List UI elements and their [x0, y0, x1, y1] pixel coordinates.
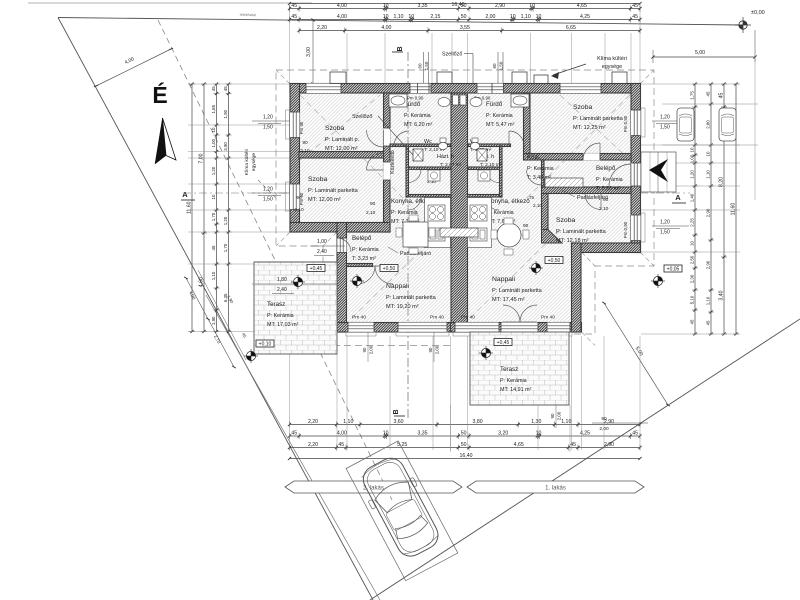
level +0.50 right unit: [545, 257, 563, 264]
dim total 16.40 top: [290, 3, 641, 5]
kitchen counter left: [425, 198, 451, 248]
svg-text:90: 90: [603, 197, 609, 203]
door belepo-left west: [337, 238, 347, 253]
svg-text:5,10: 5,10: [690, 295, 695, 304]
bathtub left: [389, 94, 407, 107]
door gap szoba1 left: [383, 128, 390, 146]
washing machine left: [428, 170, 440, 181]
svg-text:45: 45: [632, 3, 638, 9]
wall belepo bottom right-unit: [542, 187, 632, 194]
svg-text:1,40: 1,40: [690, 193, 695, 202]
right extension lines: [641, 83, 740, 85]
dining table right: [497, 223, 521, 247]
exterior wall north: [290, 84, 640, 94]
svg-text:Szellőző: Szellőző: [442, 52, 462, 58]
svg-text:A: A: [182, 190, 188, 199]
svg-text:45: 45: [338, 442, 344, 448]
svg-text:3,35: 3,35: [417, 3, 427, 9]
window sills west/east: [286, 110, 290, 139]
svg-text:2,90: 2,90: [495, 3, 505, 9]
wall wc bottom right-unit: [468, 167, 503, 170]
wall furdo bottom left-unit: [390, 144, 451, 147]
wall hazt bottom right-unit: [468, 195, 503, 198]
svg-text:1,10: 1,10: [343, 419, 353, 425]
svg-text:telekhatár: telekhatár: [240, 13, 257, 17]
svg-text:90: 90: [550, 413, 555, 418]
kitchen counter right: [468, 198, 492, 248]
svg-text:MT: 17,45 m²: MT: 17,45 m²: [492, 297, 525, 303]
stove left: [428, 205, 445, 221]
door wc left: [408, 170, 421, 183]
right vertical ext from 5.00: [754, 57, 756, 200]
window szoba1 north: [306, 84, 341, 94]
svg-text:1,20: 1,20: [263, 187, 273, 193]
svg-text:MT: 14,91 m²: MT: 14,91 m²: [500, 387, 532, 393]
left chain detailed 2: [228, 84, 230, 332]
wall wc right right-unit: [500, 146, 503, 197]
door szoba-tr right: [583, 143, 600, 160]
door gap szoba-tr right: [583, 153, 600, 160]
svg-text:10: 10: [690, 147, 695, 152]
wall kozl right right-unit: [542, 160, 545, 187]
terrace dim extension lines: [450, 405, 452, 452]
svg-text:3,90: 3,90: [223, 142, 228, 151]
svg-text:1,10: 1,10: [706, 296, 711, 305]
window nappali-left south 1: [348, 323, 374, 333]
dim 3.00 left of B: [312, 20, 314, 84]
site boundary top edge: [58, 18, 743, 26]
svg-text:MT: 5,47 m²: MT: 5,47 m²: [486, 122, 515, 128]
svg-text:2,15: 2,15: [430, 14, 440, 20]
svg-text:3,55: 3,55: [460, 25, 470, 31]
svg-text:1,10: 1,10: [211, 271, 216, 280]
svg-text:1,90: 1,90: [211, 316, 216, 325]
site boundary right edge: [370, 319, 800, 600]
svg-text:6,65: 6,65: [566, 25, 576, 31]
svg-text:1,85: 1,85: [211, 104, 216, 113]
svg-text:1,10: 1,10: [393, 14, 403, 20]
party wall vent shafts: [453, 95, 459, 105]
door nappali-right south: [501, 323, 538, 333]
dim row2 top: [290, 19, 641, 21]
svg-text:2,00: 2,00: [599, 426, 609, 432]
window szoba-tr east: [631, 110, 641, 136]
svg-text:90: 90: [302, 140, 308, 146]
svg-text:1,75: 1,75: [690, 91, 695, 100]
svg-text:1,20: 1,20: [660, 220, 670, 226]
svg-text:2,20: 2,20: [317, 25, 327, 31]
svg-text:1,50: 1,50: [660, 125, 670, 131]
svg-text:Belépő: Belépő: [352, 235, 372, 242]
svg-text:50: 50: [461, 442, 467, 448]
svg-text:1. lakás: 1. lakás: [545, 486, 566, 492]
exterior wall east lower: [572, 243, 582, 332]
svg-text:Klíma kültéri: Klíma kültéri: [597, 56, 627, 62]
door kozl right: [527, 170, 542, 185]
svg-text:10: 10: [690, 241, 695, 246]
left extension lines: [188, 83, 290, 85]
svg-text:Közl.: Közl.: [527, 155, 541, 161]
svg-text:2,50: 2,50: [690, 255, 695, 264]
wall wc left left-unit: [406, 146, 409, 197]
svg-text:Szoba: Szoba: [308, 176, 327, 183]
chimney stacks north wall: [330, 72, 346, 84]
svg-text:MT: 12,25 m²: MT: 12,25 m²: [573, 125, 606, 131]
svg-text:60: 60: [492, 63, 497, 69]
svg-text:45: 45: [690, 319, 695, 324]
door belepo-right east: [631, 163, 641, 186]
svg-text:45: 45: [211, 86, 216, 91]
svg-text:1,20: 1,20: [690, 170, 695, 179]
exterior wall southeast jog: [572, 243, 641, 253]
svg-text:10: 10: [408, 14, 414, 20]
svg-text:Wc: Wc: [424, 139, 432, 145]
svg-text:MT: 12,00 m²: MT: 12,00 m²: [325, 146, 358, 152]
svg-text:1,80: 1,80: [277, 277, 287, 283]
svg-text:90: 90: [296, 195, 302, 201]
svg-text:1,00: 1,00: [211, 138, 216, 147]
svg-text:2,00: 2,00: [557, 411, 562, 420]
svg-text:T: 3,23 m²: T: 3,23 m²: [352, 256, 376, 262]
svg-text:T: 5,56 m²: T: 5,56 m²: [596, 186, 620, 192]
door szoba1 left: [367, 130, 384, 147]
interior dashed roof lines: [300, 95, 420, 215]
svg-text:1,50: 1,50: [263, 197, 273, 203]
exterior wall south left: [337, 323, 461, 333]
svg-text:2,10: 2,10: [294, 207, 304, 213]
page top edge line: [28, 2, 312, 4]
exterior wall east upper: [631, 84, 641, 253]
window szoba-se east: [631, 215, 641, 241]
window furdo-right north: [477, 84, 498, 94]
window furdo-left north: [410, 84, 431, 94]
svg-text:Pm 0,90: Pm 0,90: [623, 221, 628, 238]
vent dim lines right: [497, 52, 499, 84]
level +0.45 right terrace: [494, 339, 512, 346]
wall belepo bottom left-unit: [347, 264, 373, 267]
parking space lines: [662, 103, 758, 105]
wall szoba right left-unit: [384, 93, 391, 232]
entrance arrow right: [649, 159, 668, 182]
building setback dashed line: [158, 20, 392, 500]
north arrow: [155, 118, 176, 164]
level +0.05 outside se: [664, 265, 682, 272]
exterior wall west upper: [290, 84, 300, 233]
entrance door right: [609, 164, 631, 186]
svg-text:2,20: 2,20: [308, 419, 318, 425]
front setback dim 4.00: [96, 49, 171, 86]
roof eaves dashed outline: [276, 70, 654, 334]
left chain 7.00/4.60: [203, 84, 205, 332]
exterior wall west lower: [337, 223, 347, 333]
toilet left: [440, 138, 446, 143]
svg-text:+0,45: +0,45: [497, 340, 510, 346]
svg-text:Nappali: Nappali: [492, 276, 516, 283]
svg-text:10: 10: [383, 3, 389, 9]
svg-text:2,10: 2,10: [366, 210, 376, 216]
svg-text:T: 2,10 m²: T: 2,10 m²: [480, 162, 502, 168]
svg-text:5,00: 5,00: [695, 50, 705, 56]
svg-text:4,00: 4,00: [337, 431, 347, 437]
svg-text:4,00: 4,00: [337, 3, 347, 9]
svg-text:1,90: 1,90: [223, 109, 228, 118]
svg-text:P: Kerámia: P: Kerámia: [352, 247, 379, 253]
double door belepo-left to nappali: [357, 266, 375, 284]
svg-text:MT: 12,00 m²: MT: 12,00 m²: [308, 197, 341, 203]
svg-text:Pm 0,90: Pm 0,90: [623, 115, 628, 132]
vent gap right north: [492, 84, 504, 94]
svg-text:90: 90: [428, 347, 433, 352]
svg-text:1,50: 1,50: [660, 230, 670, 236]
svg-text:1,20: 1,20: [223, 216, 228, 225]
wall szoba divider right: [524, 154, 632, 161]
svg-text:45: 45: [632, 431, 638, 437]
dim row1 bottom: [290, 424, 641, 426]
svg-text:+0,10: +0,10: [259, 342, 272, 348]
svg-text:Nappali: Nappali: [386, 283, 410, 290]
terrace door belepo-left: [337, 238, 351, 252]
door wc right: [486, 170, 499, 183]
svg-text:Fürdő: Fürdő: [486, 101, 503, 108]
svg-text:+0,50: +0,50: [383, 266, 396, 272]
svg-text:Belépő: Belépő: [596, 165, 616, 172]
wall szoba left right-unit: [524, 93, 531, 154]
level +0.50 left unit: [380, 265, 398, 272]
svg-text:MT: 17,03 m²: MT: 17,03 m²: [267, 322, 299, 328]
svg-text:7,00: 7,00: [199, 153, 205, 163]
svg-text:4,00: 4,00: [337, 14, 347, 20]
svg-text:3,80: 3,80: [473, 419, 483, 425]
svg-text:P: Kerámia: P: Kerámia: [404, 113, 431, 119]
parking bay outline: [346, 441, 458, 581]
svg-text:2,00: 2,00: [435, 345, 440, 354]
window szoba1 west: [290, 112, 300, 138]
vent gap left north: [418, 84, 430, 94]
section line B-B vertical: [407, 52, 409, 418]
bottom dim extension lines: [289, 336, 291, 450]
svg-text:2,00: 2,00: [485, 14, 495, 20]
svg-text:75: 75: [529, 195, 535, 200]
svg-text:2,30: 2,30: [690, 274, 695, 283]
dim row3 top: [299, 30, 640, 32]
parking car 1: [677, 108, 694, 141]
svg-text:P: Kerámia: P: Kerámia: [267, 313, 294, 319]
svg-text:±0,00: ±0,00: [751, 10, 765, 16]
svg-text:11,60: 11,60: [731, 203, 737, 216]
svg-text:1,50: 1,50: [499, 61, 504, 70]
svg-text:+0,45: +0,45: [310, 266, 323, 272]
svg-text:Klíma kültéri: Klíma kültéri: [244, 149, 250, 175]
right chain 8.20/3.40: [723, 84, 725, 334]
svg-text:10: 10: [510, 14, 516, 20]
svg-text:16,40: 16,40: [460, 453, 473, 459]
svg-text:+0,50: +0,50: [548, 258, 561, 264]
washing machine right: [478, 170, 490, 181]
svg-text:Szoba: Szoba: [556, 217, 575, 224]
roof hip dashes: [276, 70, 290, 84]
svg-text:2,90: 2,90: [604, 442, 614, 448]
svg-text:3,60: 3,60: [393, 419, 403, 425]
svg-text:1,20: 1,20: [263, 115, 273, 121]
svg-text:2,40: 2,40: [277, 287, 287, 293]
driveway edge parallel line: [206, 295, 380, 600]
svg-text:1,00: 1,00: [690, 154, 695, 163]
svg-text:50: 50: [461, 431, 467, 437]
svg-text:2,20: 2,20: [308, 442, 318, 448]
svg-text:P: Laminált parketta: P: Laminált parketta: [556, 229, 607, 235]
svg-text:Közlekedő: Közlekedő: [390, 150, 396, 174]
svg-text:egysége: egysége: [602, 64, 622, 70]
car plan view: [354, 452, 446, 563]
svg-text:10: 10: [706, 151, 711, 156]
dim 5.00 diagonal SE: [604, 303, 668, 405]
svg-text:P: Laminált parketta: P: Laminált parketta: [573, 116, 624, 122]
svg-text:P: Kerámia: P: Kerámia: [500, 378, 527, 384]
svg-text:P: Laminált parketta: P: Laminált parketta: [308, 188, 359, 194]
svg-text:P: Laminált parketta: P: Laminált parketta: [492, 288, 543, 294]
window nappali-left south 2: [398, 323, 447, 333]
svg-text:4,25: 4,25: [580, 14, 590, 20]
door furdo right: [509, 131, 524, 146]
svg-text:2,10: 2,10: [300, 148, 310, 154]
svg-text:Pm 0,90: Pm 0,90: [407, 96, 424, 101]
exterior wall southwest jog: [290, 223, 390, 233]
svg-text:Pm 40: Pm 40: [430, 315, 444, 321]
svg-text:egysége: egysége: [251, 153, 257, 171]
door szoba-se right: [585, 194, 601, 210]
vent shaft left unit: [413, 149, 423, 161]
svg-text:1,50: 1,50: [263, 125, 273, 131]
window szoba-se south: [547, 323, 570, 333]
sink right: [470, 228, 487, 241]
site boundary left edge: [58, 18, 373, 600]
svg-text:60: 60: [418, 63, 423, 69]
svg-text:P: Kerámia: P: Kerámia: [527, 166, 554, 172]
attic ladder right: [545, 178, 583, 187]
svg-text:3,20: 3,20: [498, 431, 508, 437]
svg-text:Terasz: Terasz: [500, 366, 518, 373]
svg-text:Terasz: Terasz: [267, 301, 285, 308]
door hazt left: [408, 197, 421, 210]
parking car 2: [719, 108, 736, 141]
svg-text:3,35: 3,35: [417, 431, 427, 437]
door szoba2 left: [367, 153, 384, 170]
terrace left: [254, 262, 337, 354]
svg-text:10: 10: [536, 14, 542, 20]
svg-text:90: 90: [362, 347, 367, 352]
window dim 1.20/1.50 right upper: [652, 120, 689, 122]
sink left: [428, 228, 445, 241]
svg-text:1,10: 1,10: [706, 170, 711, 179]
svg-text:1,00: 1,00: [317, 239, 327, 245]
party wall: [451, 93, 468, 323]
svg-text:Szoba: Szoba: [573, 104, 592, 111]
dining table left: [403, 222, 428, 247]
svg-text:B: B: [393, 409, 400, 414]
building footprint hatch: [290, 84, 640, 332]
svg-text:Pm 40: Pm 40: [461, 315, 475, 321]
door gap szoba2 left: [383, 162, 390, 180]
svg-text:Pm 90: Pm 90: [299, 121, 304, 134]
svg-text:MT: 12,18 m²: MT: 12,18 m²: [556, 238, 589, 244]
svg-text:P: Laminált parketta: P: Laminált parketta: [386, 295, 437, 301]
svg-text:45: 45: [706, 320, 711, 325]
svg-text:P: Laminált p.: P: Laminált p.: [325, 137, 360, 143]
svg-text:3,00: 3,00: [306, 47, 312, 57]
svg-text:1,30: 1,30: [531, 419, 541, 425]
svg-text:2,40: 2,40: [317, 249, 327, 255]
svg-text:2,25: 2,25: [690, 218, 695, 227]
svg-text:45: 45: [632, 14, 638, 20]
svg-text:2,90: 2,90: [706, 208, 711, 217]
left chain detailed: [216, 84, 218, 332]
svg-text:Konyha, étkező: Konyha, étkező: [487, 198, 530, 205]
banner 2.lakas: [285, 481, 462, 493]
svg-text:MT: 6,20 m²: MT: 6,20 m²: [404, 122, 433, 128]
svg-text:Pm 40: Pm 40: [352, 315, 366, 321]
svg-text:10: 10: [383, 14, 389, 20]
svg-text:2,80: 2,80: [706, 120, 711, 129]
svg-text:B: B: [397, 46, 404, 51]
svg-text:45: 45: [223, 86, 228, 91]
svg-text:2,00: 2,00: [369, 345, 374, 354]
boundary offset dim chain: [186, 278, 234, 367]
washbasin right: [470, 97, 482, 106]
window dim 1.20/1.50 left upper: [252, 120, 290, 122]
svg-text:2,90: 2,90: [706, 260, 711, 269]
window dim 1.20/1.50 left lower: [252, 192, 290, 194]
svg-text:MT: 19,20 m²: MT: 19,20 m²: [386, 304, 419, 310]
exterior wall south right: [451, 323, 582, 333]
svg-text:1,10: 1,10: [521, 14, 531, 20]
level +0.45 left terrace: [307, 265, 325, 272]
door hazt right: [486, 197, 499, 210]
svg-text:2,10: 2,10: [599, 206, 609, 212]
benchmark marker ±0.00: [735, 10, 765, 33]
svg-text:1,50: 1,50: [424, 61, 429, 70]
svg-text:4,00: 4,00: [381, 25, 391, 31]
banner 1.lakas: [467, 481, 644, 493]
svg-text:Szoba: Szoba: [325, 125, 344, 132]
top dim extension lines: [346, 33, 348, 84]
svg-text:90: 90: [601, 416, 607, 422]
svg-text:10: 10: [383, 431, 389, 437]
wall szoba12.18 left: [542, 194, 549, 230]
door furdo left: [394, 131, 409, 146]
svg-text:4,60: 4,60: [199, 277, 205, 287]
svg-text:45: 45: [719, 93, 725, 99]
svg-text:45: 45: [291, 3, 297, 9]
svg-text:P: Kerámia: P: Kerámia: [486, 113, 513, 119]
wall furdo bottom right-unit: [468, 144, 511, 147]
svg-text:3,40: 3,40: [719, 290, 725, 300]
vent dim lines left: [423, 52, 425, 84]
svg-text:8,20: 8,20: [719, 177, 725, 187]
window sills south: [346, 332, 376, 336]
wall belepo top left-unit: [347, 223, 391, 233]
svg-text:45: 45: [706, 91, 711, 96]
svg-text:90: 90: [523, 223, 529, 229]
level -0.10 left: [256, 340, 274, 347]
svg-text:1,20: 1,20: [660, 115, 670, 121]
svg-text:50: 50: [461, 14, 467, 20]
washbasin left: [438, 97, 450, 106]
double door nappali-right terrace: [503, 305, 520, 322]
svg-text:10: 10: [536, 431, 542, 437]
toilet right: [472, 138, 478, 143]
window szoba-right north: [560, 84, 601, 94]
svg-text:10: 10: [529, 3, 535, 9]
